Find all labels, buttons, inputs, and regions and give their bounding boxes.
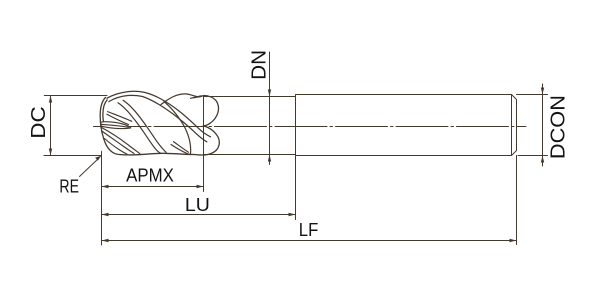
flute edge pair at lower right [171,142,191,155]
flute wrap lobe above centerline at neck junction [203,96,218,126]
flute edge from under silhouette arc to bottom [164,102,191,154]
upper tip gash lines [107,112,132,125]
svg-text:LF: LF [299,219,319,240]
cutter head bottom silhouette [121,153,190,155]
centerline [94,126,527,128]
dimension RE leader [80,156,102,177]
neck [204,97,296,155]
svg-text:LU: LU [185,194,210,215]
dimension DC [44,96,107,156]
flute land 1 outer edge (top silhouette into main diagonal) [107,91,211,142]
tip gash wedge (white filled sliver) [101,122,131,129]
svg-text:RE: RE [59,175,79,196]
svg-text:DC: DC [28,106,50,139]
left extension line (APMX LU LF) [101,151,103,245]
flute wrap lobe below centerline at neck junction [191,126,220,155]
dimension LF [102,156,517,245]
svg-text:APMX: APMX [126,166,174,186]
svg-text:DN: DN [248,50,270,80]
svg-text:DCON: DCON [548,95,570,159]
shank [296,95,517,156]
flute land 2 steep pair on ball face [118,100,166,153]
dimension DN [268,52,271,165]
head neck junction line and APMX extension [203,96,205,192]
lower tip gash lines [102,128,141,155]
dimension APMX [102,185,204,188]
dimension DCON [517,84,548,166]
flute land 3 rising silhouette arc and notch [161,94,203,105]
cutter head ball nose outline [100,98,121,155]
flute land 1 inner edge [109,95,207,141]
dimension LU [102,156,296,220]
